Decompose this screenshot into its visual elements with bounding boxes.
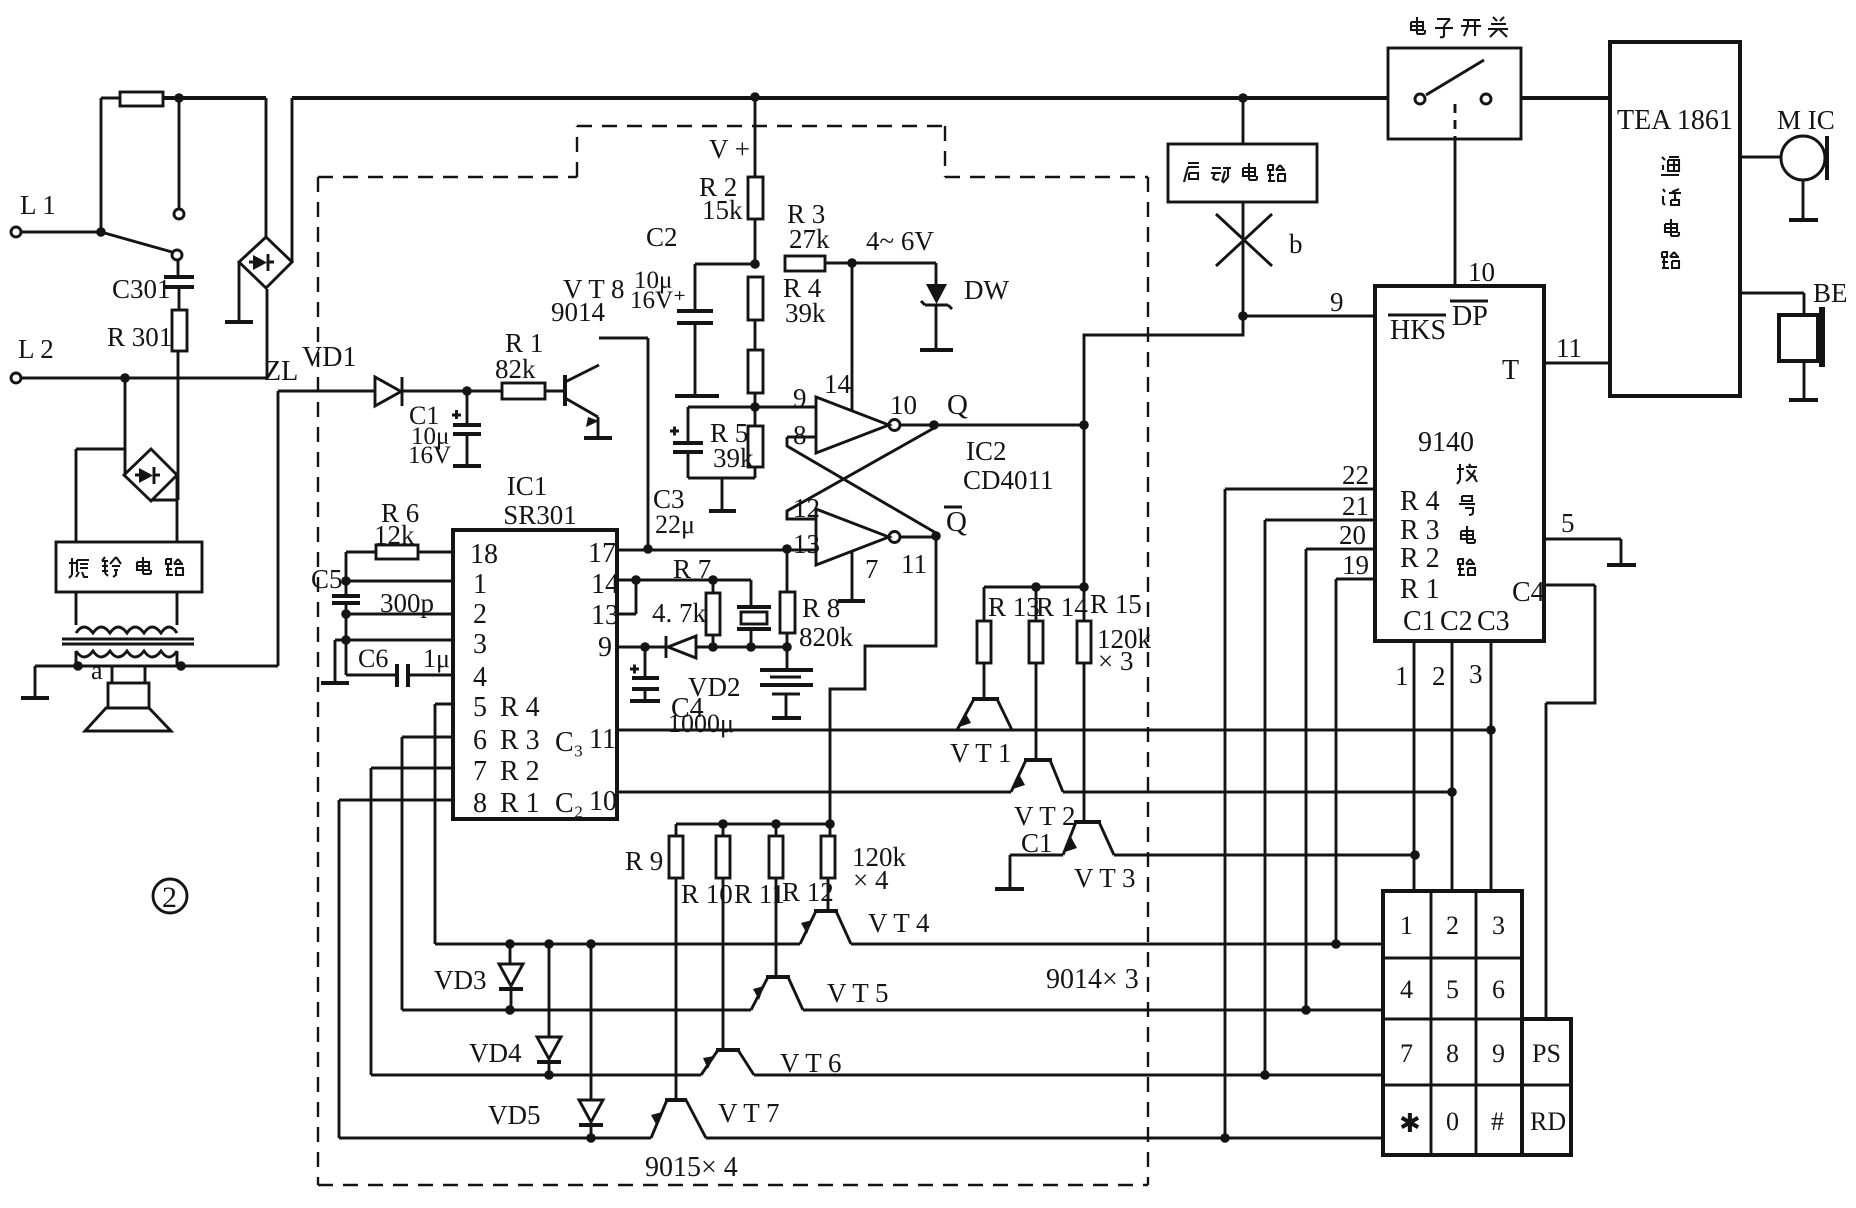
- svg-text:C4: C4: [1512, 577, 1545, 608]
- svg-text:VD1: VD1: [302, 342, 356, 373]
- svg-text:C₂: C₂: [555, 788, 583, 819]
- wire gate2 output: [900, 536, 936, 539]
- svg-text:R 8: R 8: [802, 593, 840, 623]
- op-amp gate IC2a (NAND): [755, 369, 917, 453]
- ground (DW): [920, 348, 953, 352]
- transistor VT6: [701, 1048, 842, 1078]
- svg-text:9: 9: [598, 632, 612, 663]
- svg-text:R 4: R 4: [500, 692, 540, 723]
- resistor (line resistor, top-left): [101, 92, 163, 232]
- svg-text:L 1: L 1: [20, 190, 56, 220]
- node gate1 pin14 feed: [847, 258, 857, 268]
- svg-text:3: 3: [1492, 911, 1505, 940]
- svg-text:14: 14: [591, 569, 619, 600]
- ground (pin9 cap): [630, 699, 660, 703]
- wire Q riser down to R13-R15 rail: [1083, 425, 1086, 587]
- resistor R301: [107, 310, 187, 500]
- svg-text:7: 7: [473, 756, 487, 787]
- svg-text:11: 11: [1556, 333, 1582, 363]
- ground (C3 network): [709, 478, 736, 511]
- svg-text:11: 11: [589, 724, 616, 755]
- svg-text:M IC: M IC: [1777, 105, 1835, 135]
- ground (BE): [1789, 361, 1818, 400]
- ground (C1): [453, 464, 481, 468]
- svg-text:3: 3: [473, 629, 487, 660]
- wire IC1 pin10 row (C2 row) left: [617, 791, 1011, 794]
- diode bridge D301 (upper): [239, 98, 292, 288]
- svg-text:C301: C301: [112, 274, 171, 304]
- label 120k x4: [852, 842, 907, 895]
- ground (VT3 emitter): [995, 855, 1024, 889]
- svg-text:6: 6: [1492, 975, 1505, 1004]
- node C1 column junction: [1410, 850, 1420, 860]
- svg-text:1000μ: 1000μ: [668, 709, 734, 738]
- wire column C2: [1451, 641, 1454, 891]
- svg-text:VD4: VD4: [469, 1038, 522, 1068]
- transistor VT7: [651, 1098, 780, 1138]
- svg-text:IC2: IC2: [966, 436, 1007, 466]
- wire HKS net to Q riser: [1084, 316, 1243, 335]
- diode VD4: [469, 939, 561, 1080]
- svg-text:6: 6: [473, 725, 487, 756]
- IC U1 SR301: [453, 471, 619, 819]
- svg-text:R 12: R 12: [782, 877, 834, 907]
- svg-text:C2: C2: [646, 222, 678, 252]
- svg-text:R 9: R 9: [625, 846, 663, 876]
- node junction top-left rail: [174, 93, 184, 103]
- svg-text:39k: 39k: [713, 443, 754, 473]
- svg-text:TEA 1861: TEA 1861: [1617, 105, 1733, 136]
- wire pin8 row feed: [339, 800, 453, 1138]
- node R7 bottom: [708, 642, 718, 652]
- svg-text:V T 1: V T 1: [950, 738, 1012, 768]
- ground (C4): [772, 716, 801, 720]
- svg-text:8: 8: [793, 420, 807, 450]
- svg-text:V T 4: V T 4: [868, 908, 930, 938]
- resistor R1: [495, 328, 565, 399]
- wire row3 (keypad row 3): [371, 1074, 1383, 1077]
- wire VD1 to R1: [403, 390, 502, 393]
- svg-text:15k: 15k: [702, 195, 743, 225]
- wire 9140 pin19: [1331, 550, 1375, 949]
- svg-text:BE: BE: [1813, 278, 1848, 308]
- node R8 bottom: [782, 642, 792, 652]
- wire pin17 to gate2: [617, 549, 816, 552]
- svg-text:9015× 4: 9015× 4: [645, 1152, 738, 1183]
- rail R9-R12: [676, 823, 830, 826]
- earpiece BE: [1740, 278, 1848, 367]
- wire pin9 net: [617, 646, 787, 649]
- svg-text:13: 13: [793, 529, 820, 559]
- node L1 junction: [96, 227, 106, 237]
- terminal L1: [11, 190, 101, 237]
- box electronic switch 电子开关: [1388, 17, 1521, 139]
- svg-text:V T 6: V T 6: [780, 1048, 842, 1078]
- svg-text:2: 2: [1432, 661, 1446, 691]
- capacitor C301: [112, 274, 194, 310]
- node R11 top: [771, 819, 781, 829]
- svg-text:9: 9: [1330, 287, 1344, 317]
- resistor R10: [681, 824, 733, 1050]
- wire VT8 collector: [599, 338, 648, 549]
- wire top supply rail left segment: [163, 96, 1610, 100]
- resistor R13: [977, 587, 1040, 699]
- svg-text:1: 1: [473, 569, 487, 600]
- wire C2 row right: [1063, 791, 1452, 794]
- node gate1 pin9: [750, 402, 760, 412]
- svg-text:0: 0: [1446, 1107, 1459, 1136]
- node V+: [709, 92, 760, 164]
- node pin3 tap: [341, 635, 351, 645]
- svg-text:18: 18: [470, 539, 498, 570]
- svg-text:VD3: VD3: [434, 965, 487, 995]
- wire node a: [35, 391, 278, 666]
- ground (bridge left corner): [225, 262, 253, 322]
- capacitor C4 1000u: [668, 647, 813, 738]
- svg-text:4~ 6V: 4~ 6V: [866, 226, 934, 256]
- rail R13-R15: [984, 586, 1084, 589]
- svg-text:1: 1: [1400, 911, 1413, 940]
- hook switch S (contacts and arm): [101, 209, 184, 260]
- svg-text:R 15: R 15: [1090, 589, 1142, 619]
- node L2 junction: [120, 373, 130, 383]
- op-amp gate IC2b (NAND): [793, 493, 927, 584]
- node R8 top junction: [782, 544, 792, 554]
- svg-text:Q: Q: [946, 506, 967, 538]
- wire 9140 pin20: [1301, 520, 1375, 1015]
- svg-text:V T 7: V T 7: [718, 1098, 780, 1128]
- node pin1 tap: [341, 576, 351, 586]
- svg-text:V +: V +: [709, 134, 750, 164]
- transistor VT2: [1011, 760, 1076, 831]
- box start circuit 启动电路: [1168, 144, 1317, 202]
- svg-text:9014× 3: 9014× 3: [1046, 964, 1139, 995]
- resistor (unlabeled, chain): [748, 350, 763, 426]
- ground (gate2 pin7): [838, 551, 865, 601]
- svg-text:27k: 27k: [789, 224, 830, 254]
- resistor R12: [782, 824, 835, 911]
- svg-text:16V⁺: 16V⁺: [630, 287, 686, 314]
- wire pin13 link: [617, 580, 636, 614]
- wire HKS pin9: [1243, 315, 1375, 318]
- svg-text:10: 10: [1468, 257, 1495, 287]
- wire Qbar staircase to R9-R12 rail: [830, 536, 936, 824]
- resistor R6: [346, 498, 453, 559]
- node Q output: [929, 389, 968, 430]
- svg-text:RD: RD: [1530, 1107, 1566, 1136]
- svg-text:IC1: IC1: [507, 471, 548, 501]
- wire 9140 pin21: [1260, 491, 1375, 1080]
- svg-text:C2: C2: [1440, 606, 1473, 637]
- ground (C2): [675, 394, 719, 398]
- resistor R7 4.7k: [652, 554, 720, 647]
- svg-text:HKS: HKS: [1390, 315, 1446, 346]
- microphone MIC: [1740, 105, 1835, 180]
- transistor VT4: [800, 908, 930, 944]
- svg-text:× 3: × 3: [1098, 646, 1133, 676]
- wire left rail of IC1: [346, 552, 397, 675]
- svg-text:SR301: SR301: [503, 500, 577, 530]
- wire pin7 row feed: [371, 768, 453, 1075]
- resistor R8: [780, 550, 854, 652]
- svg-text:R 13: R 13: [988, 592, 1040, 622]
- wire VT3 row (C1 row): [1010, 854, 1415, 857]
- svg-text:2: 2: [473, 599, 487, 630]
- svg-text:R 10: R 10: [681, 879, 733, 909]
- capacitor C1: [408, 391, 481, 469]
- svg-text:Q: Q: [947, 389, 968, 421]
- capacitor C3: [653, 407, 755, 539]
- svg-text:9: 9: [793, 383, 807, 413]
- svg-text:DP: DP: [1452, 301, 1488, 332]
- svg-text:V T 5: V T 5: [827, 978, 889, 1008]
- wire cross-couple Q to gate2 input: [787, 428, 934, 519]
- svg-text:V T 2: V T 2: [1014, 801, 1076, 831]
- zener diode DW: [921, 263, 1009, 348]
- svg-text:9014: 9014: [551, 297, 606, 327]
- resistor R5: [710, 418, 763, 478]
- wire row4 (keypad row 4): [339, 1137, 1383, 1140]
- svg-text:82k: 82k: [495, 354, 536, 384]
- node R2/R3/R4: [750, 259, 760, 269]
- svg-text:17: 17: [588, 538, 616, 569]
- svg-text:5: 5: [473, 692, 487, 723]
- wire ringer feed right: [176, 475, 179, 542]
- crystal Y1: [737, 607, 771, 647]
- svg-text:12k: 12k: [374, 520, 415, 550]
- svg-text:C3: C3: [1477, 606, 1510, 637]
- svg-text:820k: 820k: [799, 622, 854, 652]
- svg-text:14: 14: [824, 369, 852, 399]
- wire pin14 net: [617, 580, 751, 606]
- node pin2 tap: [341, 609, 351, 619]
- node C1 tap: [462, 386, 472, 396]
- wire ZL to VD1: [278, 390, 375, 393]
- svg-text:10: 10: [890, 390, 917, 420]
- label 120k x3: [1097, 624, 1152, 676]
- svg-text:R 4: R 4: [1400, 486, 1440, 517]
- node R12/Qbar junction: [825, 819, 835, 829]
- box ringer circuit 振铃电路: [56, 542, 202, 592]
- svg-text:#: #: [1491, 1107, 1504, 1136]
- node VT8 collector junction: [643, 544, 653, 554]
- svg-text:R 1: R 1: [500, 788, 540, 819]
- svg-text:ZL: ZL: [264, 356, 298, 387]
- node Qbar output: [931, 506, 967, 541]
- svg-text:4: 4: [1400, 975, 1413, 1004]
- wire switch to C301: [177, 260, 180, 277]
- IC U3 9140 dialer: [1375, 286, 1545, 641]
- node crystal bottom: [746, 642, 756, 652]
- capacitor (pin9 bypass): [630, 642, 659, 701]
- svg-text:1μ: 1μ: [423, 644, 450, 673]
- resistor R2: [699, 97, 763, 264]
- resistor R9: [625, 824, 683, 1100]
- wire 9140 pin22: [1220, 460, 1375, 1143]
- ground (node a, far left): [21, 666, 49, 698]
- ground (IC1 left): [321, 640, 349, 683]
- wire pin2: [346, 613, 453, 616]
- capacitor C2: [630, 222, 755, 394]
- wire L2 riser to bridge bottom: [266, 289, 269, 378]
- svg-text:21: 21: [1342, 491, 1369, 521]
- wire IC1 pin11 row (C3 row): [617, 729, 1491, 732]
- capacitor C5: [311, 564, 360, 603]
- svg-text:5: 5: [1446, 975, 1459, 1004]
- svg-text:× 4: × 4: [853, 865, 889, 895]
- box TEA1861 通话电路: [1610, 42, 1740, 396]
- wire rail to start circuit: [1242, 98, 1245, 144]
- node C2 column junction: [1447, 787, 1457, 797]
- transistor VT1: [950, 699, 1012, 768]
- resistor R15: [1077, 587, 1142, 822]
- wire 9140 pin5 ground: [1544, 508, 1636, 565]
- crossed-wires mark b: [1216, 214, 1303, 266]
- wire gate1 output: [900, 424, 934, 427]
- keypad matrix: [1383, 891, 1571, 1155]
- wire 9140 pin11 to TEA: [1544, 333, 1610, 363]
- svg-text:3: 3: [1469, 659, 1483, 689]
- svg-text:CD4011: CD4011: [963, 465, 1054, 495]
- wire cross-couple Qbar to gate1 input: [787, 437, 936, 533]
- svg-text:39k: 39k: [785, 298, 826, 328]
- svg-text:16V: 16V: [408, 442, 451, 469]
- transistor VT3: [1063, 822, 1136, 893]
- wire gate1 pin14 drop: [851, 263, 854, 411]
- wire start circuit drop: [1242, 202, 1245, 316]
- svg-text:8: 8: [473, 788, 487, 819]
- svg-text:9: 9: [1492, 1039, 1505, 1068]
- label IC2 CD4011: [963, 436, 1054, 495]
- svg-text:R 7: R 7: [673, 554, 711, 584]
- resistor R11: [734, 824, 785, 977]
- ground (MIC): [1789, 180, 1818, 220]
- wire column C1: [1413, 641, 1416, 891]
- node Q riser: [1079, 420, 1089, 430]
- transistor VT8: [551, 274, 625, 436]
- speaker (ringer): [85, 666, 171, 731]
- node C3 column junction: [1486, 725, 1496, 735]
- svg-text:R 3: R 3: [1400, 515, 1440, 546]
- svg-text:9140: 9140: [1418, 427, 1474, 458]
- svg-text:4: 4: [473, 662, 487, 693]
- ground (VT8 emitter): [584, 436, 612, 440]
- svg-text:11: 11: [901, 549, 927, 579]
- resistor R14: [1029, 587, 1088, 760]
- svg-text:1: 1: [1395, 661, 1409, 691]
- wire column C3: [1490, 641, 1493, 891]
- svg-text:R 3: R 3: [500, 725, 540, 756]
- svg-text:PS: PS: [1532, 1039, 1561, 1068]
- wire Q to riser: [934, 424, 1084, 427]
- svg-text:R 14: R 14: [1036, 592, 1088, 622]
- svg-text:T: T: [1502, 355, 1519, 386]
- svg-text:7: 7: [865, 554, 879, 584]
- wire hook-switch drop: [178, 98, 181, 209]
- svg-text:10: 10: [589, 786, 617, 817]
- wire 9140 pin C4 to PS column: [1544, 585, 1595, 1019]
- diode VD3: [434, 939, 523, 1015]
- svg-text:8: 8: [1446, 1039, 1459, 1068]
- svg-text:R 2: R 2: [1400, 543, 1440, 574]
- svg-text:✱: ✱: [1399, 1109, 1421, 1138]
- node HKS net: [1238, 311, 1248, 321]
- svg-text:C1: C1: [1021, 828, 1053, 858]
- diode VD5: [488, 939, 603, 1143]
- svg-text:a: a: [91, 656, 103, 685]
- svg-text:C5: C5: [311, 564, 343, 594]
- transformer T301: [62, 592, 194, 666]
- diode bridge D302 (ringer): [124, 449, 177, 501]
- svg-text:b: b: [1289, 229, 1303, 259]
- svg-text:C₃: C₃: [555, 727, 583, 758]
- dashed enclosure box: [318, 126, 1148, 1185]
- svg-text:5: 5: [1561, 508, 1575, 538]
- wire 9140 pin10 from switch: [1455, 139, 1495, 287]
- svg-text:R 2: R 2: [500, 756, 540, 787]
- svg-text:12: 12: [793, 493, 820, 523]
- svg-text:22μ: 22μ: [655, 510, 695, 539]
- svg-text:22: 22: [1342, 460, 1369, 490]
- svg-text:VD5: VD5: [488, 1100, 541, 1130]
- capacitor C6 1u: [358, 644, 453, 687]
- wire pin3: [346, 639, 453, 642]
- svg-text:13: 13: [591, 600, 619, 631]
- wire row1 (keypad row 1): [435, 943, 1383, 946]
- svg-text:7: 7: [1400, 1039, 1413, 1068]
- node pin14 junction: [631, 575, 641, 585]
- wire pin1: [346, 580, 453, 583]
- node rail to start circuit: [1238, 93, 1248, 103]
- wire L2 drop to ring bridge: [124, 378, 127, 475]
- diode VD2: [666, 636, 741, 702]
- wire pin5 row feed: [435, 704, 453, 944]
- svg-text:R 11: R 11: [734, 879, 785, 909]
- label figure number 2: [153, 879, 187, 914]
- wire pin6 row feed: [402, 737, 453, 1010]
- wire Q riser up to HKS line: [1084, 335, 1244, 425]
- svg-text:R 1: R 1: [1400, 574, 1440, 605]
- transistor VT5: [751, 977, 889, 1010]
- wire row2 (keypad row 2): [402, 1009, 1383, 1012]
- svg-text:L 2: L 2: [18, 334, 54, 364]
- svg-text:C1: C1: [1403, 606, 1436, 637]
- node R10 top: [718, 819, 728, 829]
- svg-text:R 301: R 301: [107, 322, 172, 352]
- diode VD1: [302, 342, 402, 406]
- svg-text:300p: 300p: [380, 588, 434, 618]
- svg-text:4. 7k: 4. 7k: [652, 598, 707, 628]
- resistor R3: [785, 199, 936, 271]
- svg-text:2: 2: [162, 881, 177, 914]
- svg-text:20: 20: [1339, 520, 1366, 550]
- svg-text:V T 3: V T 3: [1074, 863, 1136, 893]
- svg-text:C6: C6: [358, 644, 388, 673]
- svg-text:DW: DW: [964, 275, 1009, 305]
- terminal L2: [11, 334, 267, 383]
- svg-text:19: 19: [1342, 550, 1369, 580]
- resistor R4: [748, 273, 826, 350]
- wire ringer feed left: [76, 449, 124, 542]
- svg-text:2: 2: [1446, 911, 1459, 940]
